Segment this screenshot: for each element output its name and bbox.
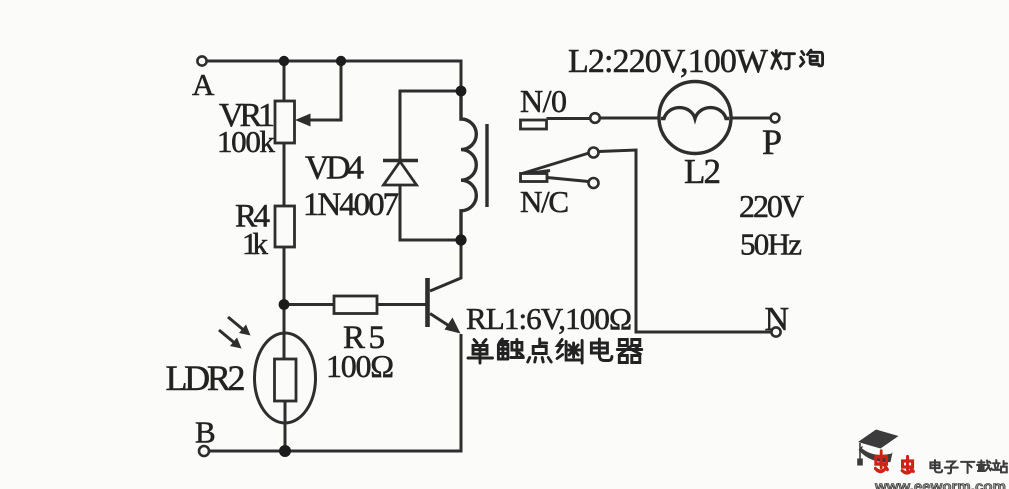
svg-text:L2:220V,100W: L2:220V,100W <box>568 43 769 80</box>
svg-text:P: P <box>762 122 782 162</box>
svg-text:1k: 1k <box>242 226 269 261</box>
svg-text:50Hz: 50Hz <box>740 227 802 262</box>
svg-text:1N4007: 1N4007 <box>303 187 399 223</box>
svg-text:N: N <box>765 301 790 338</box>
svg-text:LDR2: LDR2 <box>166 358 246 398</box>
svg-text:A: A <box>192 67 215 102</box>
svg-text:100k: 100k <box>217 124 276 159</box>
svg-text:L2: L2 <box>684 152 721 191</box>
svg-text:100Ω: 100Ω <box>326 348 394 384</box>
svg-text:N/0: N/0 <box>520 83 567 119</box>
svg-text:B: B <box>195 415 216 450</box>
svg-text:VD4: VD4 <box>305 150 364 187</box>
svg-text:220V: 220V <box>739 188 804 224</box>
svg-text:N/C: N/C <box>520 184 569 219</box>
svg-text:RL1:6V,100Ω: RL1:6V,100Ω <box>466 301 632 336</box>
svg-text:www.eeworm.com: www.eeworm.com <box>874 479 1006 489</box>
